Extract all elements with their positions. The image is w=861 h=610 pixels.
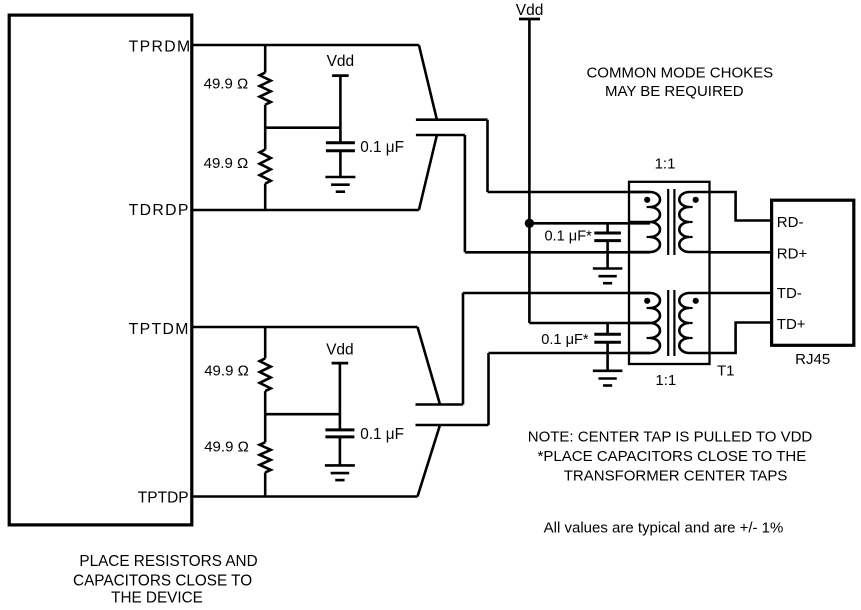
- svg-text:TD-: TD-: [777, 285, 802, 302]
- svg-text:49.9 Ω: 49.9 Ω: [204, 155, 249, 172]
- svg-text:49.9 Ω: 49.9 Ω: [204, 76, 249, 93]
- svg-text:PLACE RESISTORS AND: PLACE RESISTORS AND: [79, 553, 257, 570]
- svg-text:1:1: 1:1: [655, 372, 676, 389]
- svg-text:TPTDP: TPTDP: [138, 489, 189, 506]
- svg-text:49.9 Ω: 49.9 Ω: [204, 362, 249, 379]
- svg-text:NOTE: CENTER TAP IS PULLED TO: NOTE: CENTER TAP IS PULLED TO VDD: [528, 428, 813, 445]
- svg-text:All values are typical and are: All values are typical and are +/- 1%: [544, 520, 784, 537]
- svg-text:RD+: RD+: [777, 246, 808, 263]
- svg-text:THE DEVICE: THE DEVICE: [111, 590, 203, 607]
- svg-text:49.9 Ω: 49.9 Ω: [204, 439, 249, 456]
- svg-text:RD-: RD-: [777, 214, 804, 231]
- svg-text:T1: T1: [717, 363, 735, 380]
- svg-text:TPRDM: TPRDM: [129, 38, 192, 55]
- svg-text:Vdd: Vdd: [327, 53, 355, 70]
- svg-text:TDRDP: TDRDP: [129, 202, 190, 219]
- svg-text:0.1 μF*: 0.1 μF*: [541, 332, 589, 348]
- svg-text:TPTDM: TPTDM: [129, 321, 190, 338]
- svg-text:1:1: 1:1: [655, 156, 676, 173]
- svg-text:RJ45: RJ45: [795, 351, 830, 368]
- svg-text:0.1 μF: 0.1 μF: [360, 139, 404, 156]
- svg-text:Vdd: Vdd: [516, 2, 544, 19]
- svg-text:*PLACE CAPACITORS CLOSE TO THE: *PLACE CAPACITORS CLOSE TO THE: [538, 448, 807, 465]
- svg-text:COMMON MODE CHOKES: COMMON MODE CHOKES: [586, 65, 773, 82]
- svg-text:Vdd: Vdd: [326, 341, 354, 358]
- svg-text:TD+: TD+: [777, 316, 806, 333]
- svg-text:TRANSFORMER CENTER TAPS: TRANSFORMER CENTER TAPS: [564, 468, 788, 485]
- svg-text:MAY BE REQUIRED: MAY BE REQUIRED: [605, 83, 744, 100]
- svg-text:0.1 μF: 0.1 μF: [360, 426, 404, 443]
- svg-text:CAPACITORS CLOSE TO: CAPACITORS CLOSE TO: [73, 572, 252, 589]
- svg-text:0.1 μF*: 0.1 μF*: [544, 229, 592, 245]
